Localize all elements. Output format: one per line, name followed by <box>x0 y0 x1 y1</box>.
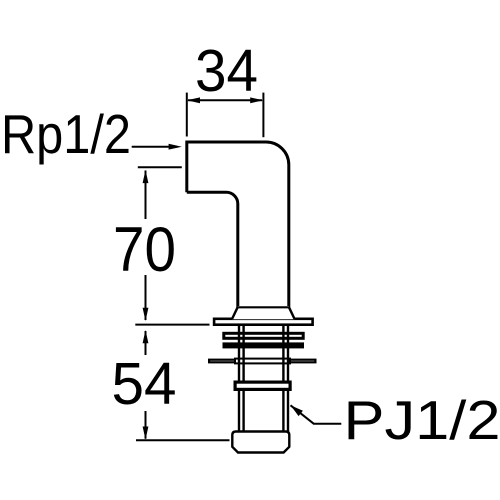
arrowhead up of dim 70 <box>143 170 149 183</box>
washer hub <box>235 359 290 364</box>
shank thread line 1 <box>238 325 240 433</box>
dimension line 70 upper segment <box>145 171 147 220</box>
leader arrowhead Rp1/2 <box>169 144 182 150</box>
locknut ring 2 (solid) <box>223 342 305 348</box>
shank thread line 2 <box>242 325 244 433</box>
lower nut <box>235 382 290 389</box>
elbow body outline <box>187 142 289 307</box>
dimension line 54 lower segment <box>145 411 147 439</box>
bottom cap nut <box>232 432 289 453</box>
extension line port centerline <box>138 166 182 168</box>
flange shoulder line <box>237 306 290 308</box>
leader line PJ1/2 <box>291 405 342 423</box>
svg-text:54: 54 <box>112 351 177 417</box>
extension line bottom of shank <box>136 439 230 441</box>
extension line right of dim 34 (pipe centerline) <box>262 93 264 138</box>
svg-text:Rp1/2: Rp1/2 <box>1 103 131 165</box>
arrowhead up of dim 54 <box>143 330 149 343</box>
leader line Rp1/2 <box>132 146 170 148</box>
flange flare left <box>232 307 238 319</box>
shank thread line 4 <box>287 325 289 433</box>
svg-text:PJ1/2: PJ1/2 <box>344 389 500 451</box>
shank thread line 3 <box>282 325 284 433</box>
leader arrowhead PJ1/2 <box>291 405 303 416</box>
dimension line 54 upper segment <box>145 331 147 355</box>
extension line flange top (70/54 boundary) <box>135 324 209 326</box>
extension line left of dim 34 <box>186 93 188 137</box>
dimension line 70 lower segment <box>145 275 147 320</box>
arrowhead left of dim 34 <box>187 97 200 103</box>
flange plate <box>214 319 313 325</box>
svg-text:70: 70 <box>113 215 176 285</box>
dimension line 34 <box>188 99 262 101</box>
flange flare right <box>289 307 295 319</box>
arrowhead down of dim 70 <box>143 308 149 321</box>
arrowhead down of dim 54 <box>143 427 149 440</box>
flange flare trapezoid fill <box>232 306 294 319</box>
locknut ring 1 <box>224 333 303 338</box>
svg-text:34: 34 <box>195 38 258 104</box>
arrowhead right of dim 34 <box>250 97 263 103</box>
winged washer <box>209 360 315 363</box>
